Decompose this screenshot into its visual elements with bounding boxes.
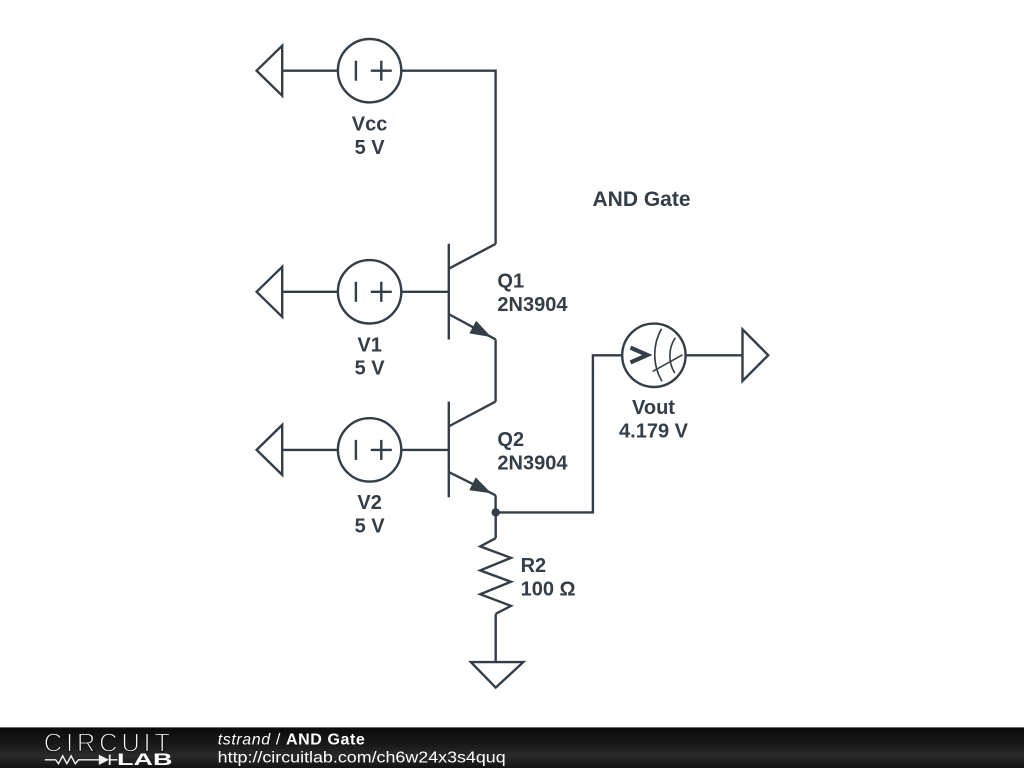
CircuitLab logo diode [99,755,109,765]
resistor R2 [480,538,511,614]
svg-text:5 V: 5 V [355,515,386,537]
terminal flag of V1 [257,267,283,317]
svg-text:tstrand / AND Gate: tstrand / AND Gate [218,732,366,749]
svg-text:100 Ω: 100 Ω [521,579,576,601]
voltage source V2 [338,418,401,481]
wire from node to voltmeter Vout [496,355,623,512]
output terminal flag [743,329,769,381]
wire from Vcc flag to Vcc source [282,69,338,71]
wire from voltmeter to output flag [686,354,743,356]
CircuitLab logo resistor squiggle [45,756,99,764]
svg-text:R2: R2 [521,555,547,577]
terminal flag of Vcc [257,46,283,96]
svg-text:V1: V1 [357,335,381,357]
svg-text:LAB: LAB [117,751,173,768]
svg-text:5 V: 5 V [355,137,386,159]
svg-text:Vcc: Vcc [352,114,388,136]
transistor Q2 [449,402,496,498]
svg-text:http://circuitlab.com/ch6w24x3: http://circuitlab.com/ch6w24x3s4quq [218,750,506,767]
svg-text:2N3904: 2N3904 [497,452,568,474]
voltage source Vcc [338,39,401,102]
wire from node to resistor R2 [495,512,497,538]
voltmeter Vout [622,324,685,387]
terminal flag of V2 [257,425,283,475]
svg-text:Vout: Vout [632,397,675,419]
svg-text:Q2: Q2 [497,429,524,451]
wire from Vcc source to Q1 collector [401,71,495,244]
footer bar [0,727,1024,768]
wire from Q2 emitter to node [494,495,496,512]
ground [471,662,523,688]
voltage source V1 [338,260,401,323]
wire from Q1 emitter to Q2 collector [494,339,496,401]
wire from resistor R2 to ground [495,614,497,662]
wire from V1 flag to V1 source [282,291,338,293]
svg-text:4.179 V: 4.179 V [619,420,689,442]
node junction dot [492,508,500,516]
svg-text:5 V: 5 V [355,358,386,380]
svg-text:V2: V2 [357,492,381,514]
svg-text:Q1: Q1 [497,271,524,293]
wire from V1 source to Q1 base [401,291,449,293]
svg-text:2N3904: 2N3904 [497,294,568,316]
wire from V2 flag to V2 source [282,449,338,451]
svg-text:AND Gate: AND Gate [593,188,691,211]
transistor Q1 [449,244,496,340]
wire from V2 source to Q2 base [401,449,449,451]
